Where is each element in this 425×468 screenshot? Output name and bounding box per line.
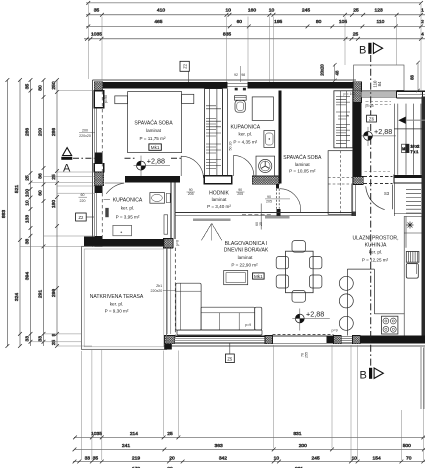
svg-text:84: 84 [377,81,382,86]
svg-text:410: 410 [157,8,165,14]
right boundary wall [422,97,425,342]
svg-text:394: 394 [24,272,30,280]
svg-text:p=9: p=9 [332,329,338,333]
svg-text:154: 154 [373,455,381,461]
svg-text:220x20: 220x20 [151,289,163,293]
dim row top 2 [86,25,425,27]
counter outline [347,269,404,335]
svg-text:38: 38 [24,239,30,245]
svg-text:7 x 1: 7 x 1 [411,150,419,154]
svg-text:10: 10 [352,455,358,461]
dim row bottom 1 [74,436,425,438]
stair window top band [397,91,425,98]
terasa edge tick [163,289,175,291]
entrance door [366,185,393,210]
svg-text:250: 250 [51,81,57,89]
svg-text:Mk1: Mk1 [151,145,160,150]
svg-text:laminat: laminat [295,162,311,167]
svg-text:1035: 1035 [91,32,102,38]
shaft hatched bar [252,176,279,184]
svg-text:Z5: Z5 [227,357,233,362]
bottom hatch col 4 [352,336,360,344]
svg-text:25: 25 [24,175,30,181]
stub door bedroom2 south [276,209,280,216]
section marker A [63,148,72,156]
svg-text:180: 180 [51,200,57,208]
svg-text:105: 105 [339,19,347,25]
column bedroom2 south-east [353,177,363,185]
section line B [370,55,372,367]
svg-text:35: 35 [93,455,99,461]
svg-text:10: 10 [24,200,30,206]
entry opening dashed lintel [366,102,392,104]
dining table [286,251,314,293]
label Z2 left [76,213,87,221]
folding door fan symbol [202,223,222,240]
svg-text:P = 3,95 m²: P = 3,95 m² [116,215,140,220]
svg-text:B: B [360,370,367,382]
left wall solid piece below column [95,186,103,193]
beam grey strip hodnik [193,219,231,222]
svg-text:92: 92 [234,73,238,77]
svg-text:KUPAONICA: KUPAONICA [113,198,143,204]
landing line [394,128,425,130]
tv cabinet [224,271,248,285]
washbasin bath2 [264,131,275,148]
svg-text:521: 521 [14,185,20,193]
svg-text:88: 88 [410,75,415,80]
svg-text:80: 80 [37,85,43,91]
column top-left corner [94,82,102,91]
svg-text:465: 465 [154,19,162,25]
svg-text:NATKRIVENA TERASA: NATKRIVENA TERASA [90,294,144,300]
dim row top 3 [84,38,425,40]
svg-text:133: 133 [24,215,30,223]
terasa glass edge [167,249,170,335]
towel rail bath1 [164,215,168,234]
bottom wall small solid piece [327,336,334,343]
svg-text:4: 4 [421,32,424,38]
section line A segments [73,157,181,159]
stair direction arrow [406,119,425,121]
label Z5 bottom [226,354,235,363]
svg-text:10: 10 [225,8,231,14]
vent grill box [406,252,419,263]
svg-text:2: 2 [421,19,424,25]
stair steps lower flight [406,190,421,213]
dim 88 vertical [417,63,419,91]
chair top [292,241,305,253]
beam grey strip living [265,216,290,219]
svg-text:220x20: 220x20 [79,134,91,138]
terasa corner column NE [164,239,173,248]
svg-text:1035: 1035 [91,431,102,437]
svg-text:245: 245 [302,8,310,14]
svg-text:299: 299 [51,289,57,297]
svg-text:P = 22,90 m²: P = 22,90 m² [231,262,258,267]
stair bottom edge + appliance dividers [394,214,421,234]
sofa armrest [255,307,262,330]
bed [128,92,182,153]
svg-text:160: 160 [248,8,256,14]
wall white piece under louver [204,176,231,184]
svg-text:p=95: p=95 [366,104,374,108]
bath1 label [104,199,111,201]
svg-text:Zb1: Zb1 [156,284,162,288]
stub below shaft [276,184,279,188]
column top-right [353,82,361,103]
bottom window (glass wall behind sofa) [175,336,265,343]
wall bedroom1/bath1 [125,176,180,183]
label Z6 [367,115,377,122]
dim row bottom 3 [73,461,425,463]
svg-text:B: B [359,45,366,57]
left wall bottom piece [95,236,103,247]
svg-text:p=9: p=9 [245,323,251,327]
left wall: parapet niche box upper [94,91,103,108]
roof overhang dashed left rooms [101,91,103,236]
louver element 1 (shaft between bedroom1 and bath) [205,89,223,176]
svg-text:286: 286 [51,128,57,136]
svg-text:35: 35 [94,8,100,14]
door bath2 (from hodnik) [234,155,254,176]
sofa seat [201,307,255,330]
dim extension lines top [88,4,421,95]
door bedroom2 (from living) leaf dashed [277,189,280,209]
svg-text:P = 11,75 m²: P = 11,75 m² [139,136,165,141]
dim columns left [7,80,57,347]
porch grey parapet band [361,92,396,98]
window top (above WC) [227,82,247,88]
bottom wall: hatch col west [164,336,174,344]
dim extension lines bottom [82,345,424,460]
bottom sliding opening dashed [273,333,334,335]
svg-text:20: 20 [169,455,175,461]
svg-text:25: 25 [353,8,359,14]
svg-text:50 20: 50 20 [229,142,233,151]
svg-text:220: 220 [80,199,86,203]
svg-text:p=90: p=90 [104,95,108,103]
svg-text:+2,88: +2,88 [306,310,324,319]
level marker kitchen [292,309,330,331]
svg-text:25: 25 [259,222,263,226]
svg-text:100: 100 [24,189,30,197]
svg-text:ULAZNI PROSTOR,: ULAZNI PROSTOR, [352,235,398,241]
svg-text:291: 291 [37,290,43,298]
dim row bottom 2 [74,448,425,450]
thin wall bedroom2 east lower [352,185,356,216]
kupaonica west thin wall [222,89,227,176]
svg-text:+2,88: +2,88 [374,127,392,136]
chair bottom [292,290,305,302]
level marker bedroom1 [134,156,171,177]
stair label box [402,144,409,152]
svg-text:98: 98 [241,73,245,77]
svg-text:P = 9,30 m²: P = 9,30 m² [105,309,129,314]
svg-text:laminat: laminat [146,128,162,133]
sofa base [177,330,262,335]
entry dashed wall lines [364,176,393,183]
left wall column (hatched) [94,172,103,186]
svg-text:205: 205 [188,192,194,196]
section line A stub right [242,214,272,216]
svg-text:1: 1 [421,8,424,14]
wall top-right segment [248,82,353,89]
svg-text:P = 12,25 m²: P = 12,25 m² [362,257,389,262]
svg-text:25: 25 [353,32,359,38]
wall kupaonica2/bedroom2 vertical [278,91,281,184]
svg-text:25: 25 [51,340,57,346]
terasa roof overhang dashed [174,248,176,338]
partition corner bedroom2 [352,211,356,216]
svg-text:80: 80 [316,19,322,25]
svg-text:10: 10 [274,455,280,461]
left wall niche box mid [94,164,103,173]
svg-text:A: A [63,163,71,175]
chair left 1 [276,257,288,269]
svg-text:ker. pl.: ker. pl. [110,302,124,307]
svg-text:Mk1: Mk1 [254,274,263,279]
door bedroom1 (from hodnik) [181,156,203,178]
svg-text:241: 241 [122,443,130,449]
bottom window 2 [341,336,352,343]
radiator bath1 [105,208,108,217]
svg-text:DNEVNI BORAVAK: DNEVNI BORAVAK [224,248,269,254]
svg-text:90: 90 [189,188,193,192]
svg-text:35: 35 [24,84,30,90]
entry overhang dashes [365,171,392,173]
svg-text:ker. pl.: ker. pl. [369,250,383,255]
nightstand left [115,96,128,104]
svg-text:195: 195 [274,19,282,25]
wall bath1 east vertical (double line) [171,182,174,238]
svg-text:25: 25 [167,431,173,437]
svg-text:123: 123 [375,8,383,14]
level marker bedroom2 [361,127,397,146]
dim row top 0 [86,2,421,4]
svg-text:Z6: Z6 [369,117,375,122]
svg-text:255: 255 [305,352,309,358]
svg-text:Z2: Z2 [78,215,84,220]
washing machine [256,156,275,176]
svg-text:883: 883 [1,210,7,218]
svg-text:BLAGOVAONICA I: BLAGOVAONICA I [225,241,268,247]
chair left 2 [276,275,288,288]
svg-text:86: 86 [37,173,43,179]
svg-text:342: 342 [219,455,227,461]
svg-text:835: 835 [223,32,231,38]
door bath1 (ensuite from bedroom1) [106,183,124,194]
wall top-left segment [95,82,228,89]
svg-text:363: 363 [215,443,223,449]
svg-text:286: 286 [24,128,30,136]
svg-text:324: 324 [14,293,20,301]
wall bedroom2 east vertical [353,102,362,176]
wall bath1 south [102,239,164,247]
svg-text:laminat: laminat [212,197,228,202]
svg-text:ker. pl.: ker. pl. [239,131,253,136]
svg-text:500: 500 [403,443,411,449]
washbasin bath1 [150,193,165,204]
left wall solid piece mid [95,152,103,163]
left wall window upper [94,108,96,153]
label Z2 top [180,61,189,71]
stove [382,316,398,334]
sink circles [339,276,353,290]
left wall window lower [94,193,96,236]
svg-text:200: 200 [299,443,307,449]
svg-text:Z2: Z2 [182,63,187,69]
hob star symbol [407,222,414,229]
svg-text:90: 90 [238,188,242,192]
chair right 1 [310,257,322,269]
svg-text:ker. pl.: ker. pl. [121,206,135,211]
svg-text:P = 4,35 m²: P = 4,35 m² [233,140,257,145]
bottom hatch col 3 [333,336,341,344]
svg-text:33: 33 [85,455,91,461]
terasa top wall stub [84,237,95,247]
svg-text:p = 100: p = 100 [344,92,356,96]
terasa slab outline [82,246,167,349]
svg-text:HODNIK: HODNIK [209,190,229,196]
svg-text:60: 60 [237,19,243,25]
path edge bottom-right [421,347,424,409]
nightstand right [182,94,194,103]
svg-text:S3: S3 [384,191,390,196]
sofa chaise [176,283,201,330]
svg-text:KUPAONICA: KUPAONICA [230,125,260,131]
svg-text:P = 10,05 m²: P = 10,05 m² [289,169,316,174]
svg-text:214: 214 [130,431,138,437]
chair right 2 [310,275,322,288]
svg-text:48: 48 [335,70,340,75]
svg-text:205: 205 [266,199,272,203]
svg-text:70: 70 [406,455,412,461]
svg-text:110: 110 [377,19,385,25]
svg-text:205: 205 [237,192,243,196]
svg-text:SPAVAĆA SOBA: SPAVAĆA SOBA [283,154,322,161]
svg-text:33: 33 [24,336,30,342]
bottom wall east solid [360,336,425,344]
svg-text:20x20: 20x20 [320,64,325,76]
dim connectors left [20,91,94,346]
svg-text:25: 25 [51,174,57,180]
svg-text:200: 200 [37,128,43,136]
louver element 2 (bedroom2 closet top) [334,91,353,148]
svg-text:33: 33 [37,336,43,342]
stair shaft verticals [394,104,421,216]
svg-text:M: M [402,147,405,151]
svg-text:p=0: p=0 [176,240,180,246]
dim row top 1 [86,14,425,16]
svg-text:+2,88: +2,88 [147,157,165,166]
counter right edge [404,216,406,335]
svg-text:SPAVAĆA SOBA: SPAVAĆA SOBA [134,120,173,127]
facade line bottom [164,345,425,346]
svg-text:90: 90 [267,195,271,199]
svg-text:60: 60 [37,190,43,196]
svg-text:200: 200 [82,129,88,133]
terasa corner column SE [164,344,172,350]
svg-text:831: 831 [293,431,301,437]
entry wall right of door [394,175,425,184]
bottom hatch col 2 [265,336,273,344]
svg-text:laminat: laminat [238,255,254,260]
partition hodnik/living [175,212,357,215]
facade outline left/top [93,80,357,247]
shower tray bath1 [113,225,132,235]
svg-text:219: 219 [132,455,140,461]
svg-text:P = 3,40 m²: P = 3,40 m² [207,204,231,209]
leader line at partition [260,204,262,230]
closet bedroom2 (dashed wardrobe) [328,151,353,215]
wc (bath2) [235,88,238,91]
svg-text:245: 245 [312,455,320,461]
shower bath2 [252,97,273,121]
column bath1 south-east [163,239,172,248]
svg-text:10: 10 [269,8,275,14]
svg-text:16 x2: 16 x2 [411,145,420,149]
porch outline [354,65,404,90]
fridge [406,264,418,279]
svg-text:KUHINJA: KUHINJA [365,242,387,248]
